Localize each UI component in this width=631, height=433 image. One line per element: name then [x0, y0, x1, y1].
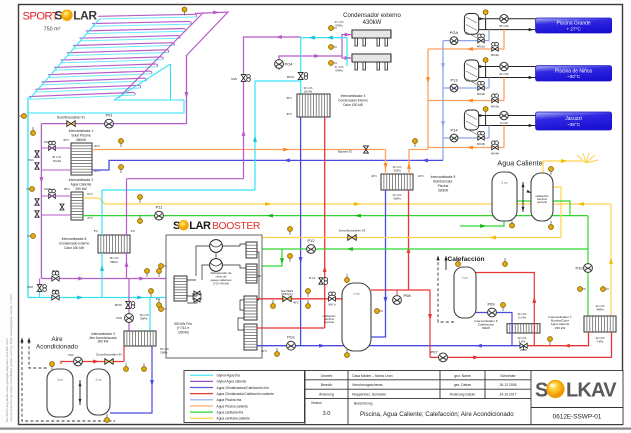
condenser unit 1 — [352, 30, 391, 46]
svg-text:gez. Name: gez. Name — [454, 374, 471, 378]
svg-text:Piscina, Agua Caliente; Calefa: Piscina, Agua Caliente; Calefacción; Air… — [360, 411, 514, 418]
svg-text:P91: P91 — [105, 113, 113, 118]
pump P91 — [105, 119, 114, 128]
svg-text:LAR: LAR — [189, 220, 211, 232]
svg-text:Durchflusszähler 91: Durchflusszähler 91 — [57, 116, 85, 120]
wire: orange pool manifold — [427, 49, 429, 150]
svg-text:Agua sanitaria caliente: Agua sanitaria caliente — [217, 417, 251, 421]
wire: red drop from HX4 — [324, 117, 326, 299]
svg-text:Klappenbez, Semester: Klappenbez, Semester — [352, 393, 387, 397]
svg-text:26.12.2006: 26.12.2006 — [500, 383, 517, 387]
svg-text:P93: P93 — [69, 353, 74, 357]
svg-text:250 kW: 250 kW — [555, 326, 566, 330]
svg-text:3 m³: 3 m³ — [57, 378, 63, 382]
wire: purple riser from bus y37 — [244, 37, 301, 179]
svg-text:MV/3b: MV/3b — [491, 105, 500, 109]
svg-text:40°C: 40°C — [261, 349, 267, 353]
wire: purple feeds into condensers — [342, 35, 352, 58]
wire: pool 2 orange drop — [428, 78, 504, 101]
heating tank — [454, 267, 476, 318]
svg-text:Condensado interno: Condensado interno — [338, 99, 368, 103]
svg-text:31kPa: 31kPa — [393, 197, 401, 201]
sensors at chiller left ports — [159, 264, 167, 269]
svg-text:46°C: 46°C — [293, 301, 299, 305]
chiller internal hx top (yellow recovery) — [246, 242, 257, 258]
SOLKAV logo — [535, 380, 617, 402]
svg-text:80kW: 80kW — [482, 326, 490, 330]
wire: cyan riser to HX4 — [255, 81, 301, 190]
svg-text:450kW: 450kW — [76, 138, 87, 142]
svg-text:P12: P12 — [307, 238, 315, 243]
wire: yellow tank B right loop — [553, 187, 561, 238]
svg-text:Agua Piscina caliente: Agua Piscina caliente — [217, 404, 249, 408]
svg-text:Condensador externo: Condensador externo — [343, 13, 401, 19]
expansion valves — [194, 291, 200, 295]
svg-text:35kPa: 35kPa — [140, 317, 148, 321]
wire: blue + red outputs of HX5 — [371, 190, 386, 337]
array left edge — [29, 19, 99, 99]
svg-text:3 m³: 3 m³ — [95, 378, 101, 382]
valve MV9 — [241, 75, 250, 82]
array right edge diagonals + top header to riser — [119, 12, 228, 98]
motor valve pool 2 blue branch — [478, 81, 485, 90]
condenser hx 1 — [244, 296, 257, 320]
svg-text:Gewerk: Gewerk — [321, 374, 333, 378]
svg-text:50 m³/h: 50 m³/h — [52, 155, 61, 159]
svg-text:40°C: 40°C — [418, 174, 424, 178]
wire: pool 2 black supply/return — [479, 66, 536, 68]
svg-text:Schneider: Schneider — [500, 374, 516, 378]
svg-text:Agua Caliente: Agua Caliente — [71, 183, 92, 187]
wire: pool 1 black supply/return — [479, 18, 536, 20]
title block — [305, 371, 623, 425]
svg-text:Casa Mahler – Noma Leon: Casa Mahler – Noma Leon — [352, 374, 393, 378]
svg-text:31kPa: 31kPa — [160, 351, 168, 355]
svg-text:22 m³/h: 22 m³/h — [596, 336, 605, 340]
svg-text:9 m³/h: 9 m³/h — [500, 121, 508, 125]
stubs HX2 — [41, 196, 71, 215]
svg-text:Acondicionado: Acondicionado — [36, 344, 78, 351]
svg-text:Verrohrungsschema: Verrohrungsschema — [352, 383, 382, 387]
svg-text:PG5: PG5 — [116, 316, 122, 320]
svg-text:+ 27°C: + 27°C — [566, 26, 581, 31]
cyan return triangle under array — [28, 64, 184, 113]
wire: cyan to HX8 — [102, 190, 255, 298]
legend row 3 — [190, 387, 213, 389]
AC buffer tank 2 — [87, 369, 110, 415]
svg-text:Änderung Datum: Änderung Datum — [450, 393, 476, 397]
svg-text:50 m³/h: 50 m³/h — [304, 86, 313, 90]
svg-text:PG1: PG1 — [287, 335, 296, 340]
svg-text:44 m³/h: 44 m³/h — [393, 165, 402, 169]
pool heat exchanger 1 — [464, 14, 478, 39]
svg-text:45°C: 45°C — [286, 96, 292, 100]
wire: red bottom supply to HX7 — [528, 332, 589, 346]
motor valve pool 1 blue branch — [478, 34, 485, 43]
svg-text:~30°C: ~30°C — [567, 74, 581, 79]
svg-text:Durchflusszähler 94: Durchflusszähler 94 — [96, 353, 122, 357]
svg-text:MV/1b: MV/1b — [477, 45, 486, 49]
valve MV1b red line — [329, 292, 336, 301]
svg-text:56 m³/h: 56 m³/h — [140, 313, 149, 317]
wire: green chiller line — [262, 249, 588, 266]
pool basin 2 — [536, 66, 612, 81]
svg-text:320kW: 320kW — [438, 189, 449, 193]
flow meter 93 — [348, 235, 356, 241]
svg-text:Änderung: Änderung — [319, 393, 334, 397]
solar collector array (12 rows) — [29, 14, 197, 99]
svg-text:55 m³/h: 55 m³/h — [499, 24, 509, 28]
wire: glykol hot bus to chiller (purple) — [41, 278, 166, 280]
valves at HX1 left — [49, 141, 56, 150]
SOLARBOOSTER logo — [173, 220, 261, 232]
compressor 2 — [210, 259, 223, 272]
svg-text:56 m³/h: 56 m³/h — [160, 347, 169, 351]
svg-text:P10: P10 — [575, 266, 583, 271]
svg-text:85°C: 85°C — [64, 187, 70, 191]
svg-text:P13: P13 — [450, 78, 458, 83]
svg-text:(70°) 40 kW: (70°) 40 kW — [213, 282, 229, 286]
pool basin 3 — [536, 112, 612, 130]
evaporator — [174, 276, 187, 301]
wire: blue heating return + P09 into HX6 — [476, 313, 512, 346]
svg-text:MV5b: MV5b — [52, 288, 60, 292]
wire: cyan drop through MV10 into HX4 — [300, 37, 302, 94]
wire: yellow drop to HX7 — [610, 204, 612, 318]
wire: red from heating tank top down across HX6 — [476, 273, 534, 346]
wire: purple condenser feed — [279, 56, 342, 70]
pool heat exchanger 3 — [464, 110, 478, 135]
pool heat exchanger 2 — [464, 60, 478, 85]
svg-text:unsere Zustimmung weder vervie: unsere Zustimmung weder vervielfältigt, … — [9, 294, 13, 422]
svg-text:55kPa: 55kPa — [110, 260, 118, 264]
dashed AC distribution lines — [22, 341, 115, 421]
wire: pool 1 orange drop — [428, 30, 504, 49]
svg-text:250 kW: 250 kW — [75, 187, 87, 191]
legend row 6 — [190, 405, 213, 407]
svg-text:BOOSTER: BOOSTER — [212, 221, 261, 232]
svg-text:Bomba/Calor: Bomba/Calor — [433, 180, 453, 184]
svg-text:Intercambiador 5: Intercambiador 5 — [431, 175, 456, 179]
svg-text:4 m³: 4 m³ — [353, 292, 359, 296]
svg-text:0612E-SSWP-01: 0612E-SSWP-01 — [553, 414, 602, 421]
legend row 1 — [190, 374, 213, 376]
svg-text:67kPa: 67kPa — [335, 69, 343, 73]
svg-text:34°C: 34°C — [371, 174, 377, 178]
wire: red AC warm line — [61, 346, 124, 364]
hot glykol riser from array — [186, 55, 188, 124]
svg-text:Agua Climatizador/Calefacción: Agua Climatizador/Calefacción caliente — [217, 392, 275, 396]
svg-text:MV1: MV1 — [28, 158, 34, 162]
svg-text:430kW: 430kW — [363, 20, 382, 26]
legend row 2 — [190, 380, 213, 382]
svg-text:~36°C: ~36°C — [567, 122, 581, 127]
pump P11 on green bus — [155, 211, 164, 220]
svg-text:Bereich: Bereich — [321, 383, 333, 387]
wire: yellow to consumers + fan symbol — [543, 161, 583, 173]
svg-text:11 kPa: 11 kPa — [518, 316, 526, 320]
svg-text:LKAV: LKAV — [566, 380, 617, 402]
compressor 1 — [210, 240, 223, 253]
svg-text:PO4: PO4 — [284, 62, 293, 67]
wire: green right riser branch — [504, 201, 570, 216]
svg-text:MV7b: MV7b — [115, 303, 123, 307]
svg-text:Solar Piscina: Solar Piscina — [71, 134, 90, 138]
svg-text:P07: P07 — [430, 349, 438, 354]
svg-text:20 m³/h: 20 m³/h — [518, 336, 527, 340]
svg-text:Intercambiador 8: Intercambiador 8 — [62, 237, 87, 241]
svg-text:opcional: opcional — [537, 200, 547, 204]
wire: cyan returns from condensers — [301, 38, 347, 66]
wire: pool 3 orange drop — [428, 126, 504, 148]
svg-text:2 m³: 2 m³ — [462, 276, 468, 280]
svg-text:9°C: 9°C — [131, 229, 135, 233]
wire: pool 2 cornflower branch with pump P13 — [443, 78, 489, 89]
wire: blue AC cold return — [110, 346, 152, 413]
wire: sanitary hot bus (yellow) — [83, 198, 611, 204]
svg-text:300 kW: 300 kW — [98, 340, 109, 344]
svg-text:MV9: MV9 — [231, 77, 237, 81]
pool basin 1 — [536, 18, 612, 33]
wire: glykol cold bus (cyan) — [28, 297, 166, 299]
pump pool 3 circulation — [500, 111, 508, 119]
wire: green drop to HX7 — [587, 216, 589, 316]
svg-text:34kPa: 34kPa — [596, 308, 604, 312]
wire: purple from HX8 — [127, 179, 244, 279]
svg-text:(9/94y/1): (9/94y/1) — [281, 292, 292, 296]
legend row 8 — [190, 417, 213, 419]
pump pool 1 circulation — [500, 15, 508, 23]
svg-text:Condensado externo: Condensado externo — [59, 242, 90, 246]
wire: red top line from tank + P08 — [371, 290, 430, 357]
pump pool 2 circulation — [500, 62, 508, 70]
svg-text:4 kPa: 4 kPa — [597, 340, 604, 344]
AC tank link arrows — [79, 380, 81, 405]
AC buffer tank 1 — [47, 369, 73, 417]
svg-text:750 m²: 750 m² — [44, 27, 61, 33]
consumer fan symbol — [577, 153, 598, 163]
svg-text:P08: P08 — [403, 293, 411, 298]
svg-text:MV/ b: MV/ b — [328, 303, 336, 307]
condenser hx 2 — [244, 324, 257, 350]
condenser unit 2 — [352, 54, 391, 70]
svg-text:67kPa: 67kPa — [335, 24, 343, 28]
svg-text:Aire: Aire — [51, 336, 63, 343]
svg-text:22 m³/h: 22 m³/h — [596, 304, 605, 308]
motor valve pool 3 blue branch — [478, 131, 485, 140]
svg-text:MV10: MV10 — [287, 75, 295, 79]
heat exchanger HX4 Intercambiador 4 Condensado interno Calor 430kW — [297, 94, 330, 117]
svg-text:44 m³/h: 44 m³/h — [393, 193, 402, 197]
svg-text:Version: Version — [311, 401, 322, 405]
svg-text:45 kPa: 45 kPa — [53, 159, 62, 163]
wire: sanitary cold bus (green) — [83, 215, 588, 217]
svg-text:Agua Climatizadora/Calefacción: Agua Climatizadora/Calefacción frio — [217, 386, 270, 390]
wire: pool 3 cornflower branch with pump P14 — [443, 126, 489, 139]
svg-text:47°C: 47°C — [87, 216, 93, 220]
svg-text:M 11: M 11 — [309, 276, 315, 280]
svg-text:P14: P14 — [450, 128, 458, 133]
wire: green cold water to tank A — [460, 221, 504, 226]
svg-text:5 m³: 5 m³ — [501, 181, 507, 185]
disclaimer note (rotated, left margin) — [5, 294, 13, 422]
wire: clima cold bus (blue) — [92, 160, 443, 170]
svg-text:Agua Caliente: Agua Caliente — [497, 159, 542, 168]
wire: cyan drop to HX3 — [149, 298, 151, 332]
svg-text:Piscina: Piscina — [438, 184, 449, 188]
wire: purple drop to HX3 — [128, 279, 130, 332]
motor valve pool 2 orange branch — [492, 94, 499, 103]
svg-text:45 m³/h: 45 m³/h — [110, 256, 119, 260]
svg-text:Bypass 92: Bypass 92 — [338, 150, 352, 154]
legend box — [184, 371, 305, 423]
svg-text:P09: P09 — [487, 302, 495, 307]
wire: pool 3 black supply/return — [479, 115, 536, 117]
svg-text:61°C: 61°C — [87, 192, 93, 196]
svg-text:47 m³/h: 47 m³/h — [335, 65, 344, 69]
svg-text:Calor 430 kW: Calor 430 kW — [343, 103, 364, 107]
buffer tank 4 m3 — [342, 283, 371, 351]
svg-text:5°C: 5°C — [156, 297, 160, 301]
wire: cyan glykol-cold left riser — [27, 97, 29, 298]
svg-text:LAR: LAR — [73, 9, 97, 23]
svg-text:MV4: MV4 — [44, 187, 50, 191]
bypass valve 92 — [364, 146, 369, 153]
heat exchanger HX5 Intercambiador 5 Bomba/Calor Piscina 320kW — [381, 174, 413, 190]
svg-text:Intercambiador 4: Intercambiador 4 — [341, 94, 366, 98]
legend row 7 — [190, 411, 213, 413]
chiller unit 300 kW Frio — [166, 235, 262, 358]
svg-text:MV/3b: MV/3b — [477, 142, 486, 146]
svg-text:MV/2b: MV/2b — [491, 53, 500, 57]
wire: magenta hot bus to HX1 — [41, 123, 186, 125]
valves MV5a MV5b MV6 — [52, 272, 59, 281]
chiller internal piping — [187, 244, 261, 330]
svg-text:MV3: MV3 — [44, 140, 50, 144]
svg-text:MV6: MV6 — [27, 285, 33, 289]
svg-text:PGA: PGA — [450, 30, 459, 35]
wire: link purple-cyan buses — [39, 279, 41, 289]
svg-text:Agua sanitaria fria: Agua sanitaria fria — [217, 410, 244, 414]
svg-text:Glykol Agua caliente: Glykol Agua caliente — [217, 380, 247, 384]
svg-text:+35/40): +35/40) — [177, 330, 189, 334]
flow meter chiller red — [283, 296, 291, 302]
svg-text:47 m³/h: 47 m³/h — [335, 20, 344, 24]
svg-text:31kPa: 31kPa — [393, 169, 401, 173]
svg-text:28 kPa: 28 kPa — [304, 90, 313, 94]
hot water tank A — [492, 172, 517, 221]
chiller internal hx 2 — [246, 264, 257, 283]
wire: red return bus with P07 — [430, 332, 612, 357]
svg-text:22 m³/h: 22 m³/h — [499, 72, 509, 76]
wire: orange legs into HX5 — [386, 150, 429, 175]
svg-text:P11: P11 — [156, 205, 164, 210]
svg-text:5°C: 5°C — [94, 229, 98, 233]
svg-text:Durchflusszähler 93: Durchflusszähler 93 — [339, 229, 366, 233]
valve M11 on red — [319, 278, 328, 285]
svg-text:S: S — [535, 380, 548, 402]
legend row 5 — [190, 399, 213, 401]
svg-text:30°C: 30°C — [94, 144, 100, 148]
motor valve pool 3 orange branch — [492, 141, 499, 150]
svg-text:Intercambiador 1: Intercambiador 1 — [69, 129, 94, 133]
svg-text:40°C: 40°C — [286, 112, 292, 116]
svg-text:24.10.2017: 24.10.2017 — [500, 393, 517, 397]
motor valve pool 1 orange branch — [492, 42, 499, 51]
wire: blue PG1 line chiller to mixing valve — [257, 345, 521, 347]
svg-text:20 m³/h: 20 m³/h — [518, 312, 527, 316]
flow meter 91 — [67, 121, 75, 127]
tank link arrows — [522, 182, 524, 212]
wire: yellow chiller recovery line — [253, 235, 561, 238]
svg-text:45°C: 45°C — [63, 138, 69, 142]
legend row 4 — [190, 393, 213, 395]
hot water tank B — [531, 173, 553, 221]
wire: pool 1 cornflower branch with pump PGA — [443, 30, 489, 41]
svg-text:Calor 430 kW: Calor 430 kW — [64, 246, 85, 250]
wire: pool warm bus (orange) — [92, 149, 386, 151]
svg-text:Calefacción: Calefacción — [447, 256, 484, 263]
sensor on array header — [182, 7, 187, 15]
wire: red condenser output — [257, 299, 342, 328]
svg-text:Bezeichnung: Bezeichnung — [354, 402, 373, 406]
svg-text:Glykol-Agua fria: Glykol-Agua fria — [217, 374, 241, 378]
wire: blue drop from HX4 — [300, 117, 302, 346]
flow meter 94 — [105, 359, 113, 365]
svg-text:MV/2b: MV/2b — [477, 92, 486, 96]
svg-text:MV/4b: MV/4b — [491, 152, 500, 156]
svg-text:opcional: opcional — [324, 320, 334, 324]
stubs HX1 — [41, 148, 71, 170]
svg-text:SPORT: SPORT — [23, 10, 59, 22]
svg-text:Intercambiador 2: Intercambiador 2 — [69, 178, 94, 182]
SPORTSOLAR logo — [23, 9, 98, 33]
svg-text:Agua Piscina fria: Agua Piscina fria — [217, 398, 242, 402]
svg-text:gez. Datum: gez. Datum — [454, 383, 472, 387]
three-way mixing valve — [520, 343, 527, 348]
svg-text:MV5a: MV5a — [52, 269, 60, 273]
wire: cornflower pool manifold — [442, 41, 444, 161]
sensors on HX1 outlet lines — [119, 139, 124, 147]
svg-text:3.0: 3.0 — [323, 411, 331, 417]
